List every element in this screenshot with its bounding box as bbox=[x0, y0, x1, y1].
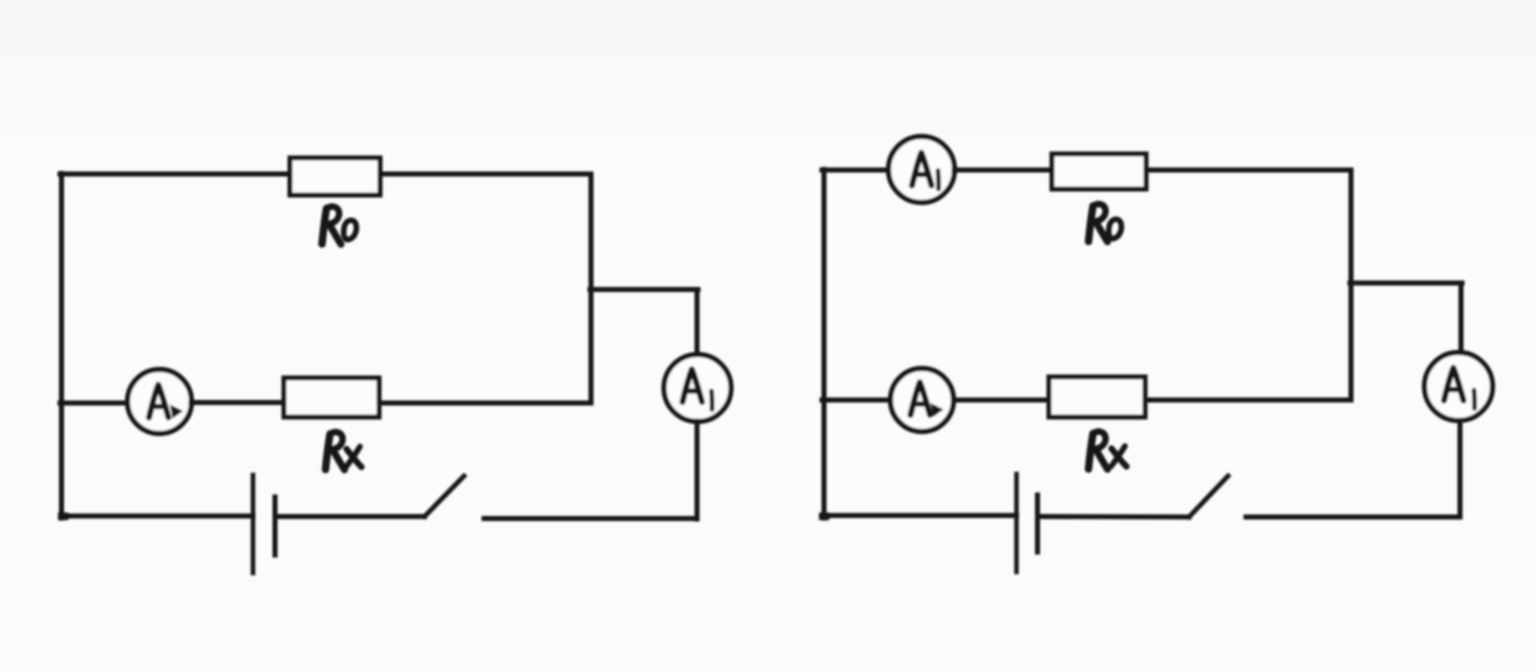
battery plate short (b) bbox=[1035, 495, 1040, 552]
wire: bottom left (b) bbox=[824, 513, 1017, 518]
resistor R0 (b) bbox=[1052, 154, 1146, 189]
wire: middle branch right (b) bbox=[1145, 398, 1351, 403]
label Rx (b) bbox=[1089, 432, 1127, 470]
wire: top mid (b) bbox=[954, 168, 1052, 173]
resistor R0 (a) bbox=[290, 158, 380, 195]
wire: A1 top stub (b) bbox=[1459, 283, 1464, 352]
wire: top right (b) bbox=[1146, 168, 1351, 173]
wire: middle branch left (a) bbox=[60, 401, 128, 406]
wire: middle branch left (b) bbox=[822, 398, 891, 403]
wire: jog toward A1 (a) bbox=[590, 287, 698, 292]
switch S blade (a) bbox=[425, 476, 465, 517]
wire: middle branch right (a) bbox=[379, 401, 591, 406]
wire: A1 bottom stub (a) bbox=[695, 421, 700, 519]
wire: bottom right (b) bbox=[1246, 515, 1460, 520]
wire: bottom left (a) bbox=[62, 514, 254, 519]
label Rx (a) bbox=[326, 432, 362, 470]
wire: bottom right (a) bbox=[484, 516, 697, 521]
wire: right vertical upper (a) bbox=[589, 174, 594, 403]
switch S blade (b) bbox=[1189, 476, 1228, 517]
ammeter A1 right (b) bbox=[1425, 353, 1493, 421]
label R0 (a) bbox=[322, 207, 356, 245]
resistor Rx (a) bbox=[284, 378, 379, 417]
ammeter A2 (b) bbox=[891, 369, 954, 432]
wire: pivot to battery (a) bbox=[278, 514, 425, 519]
wire: left vertical (b) bbox=[819, 170, 830, 519]
wire: middle branch mid (b) bbox=[954, 398, 1050, 403]
ammeter A2 (a) bbox=[128, 370, 192, 434]
ammeter A1 top (b) bbox=[889, 137, 955, 203]
resistor Rx (b) bbox=[1049, 377, 1145, 417]
wire: top left to ammeter (b) bbox=[822, 168, 889, 173]
wire: right vertical upper (b) bbox=[1349, 170, 1354, 400]
wire: A1 bottom stub (b) bbox=[1458, 421, 1463, 518]
wire: jog toward A1 (b) bbox=[1350, 281, 1462, 286]
battery plate long (a) bbox=[251, 475, 256, 573]
wire: middle branch mid (a) bbox=[191, 400, 284, 405]
battery plate long (b) bbox=[1014, 474, 1019, 572]
battery plate short (a) bbox=[273, 497, 278, 555]
wire: pivot to battery (b) bbox=[1040, 514, 1189, 520]
label R0 (b) bbox=[1089, 204, 1122, 242]
wire: left vertical (a) bbox=[58, 174, 69, 519]
wire: A1 top stub (a) bbox=[695, 290, 700, 356]
ammeter A1 (a) bbox=[664, 355, 731, 422]
wire: top (a) bbox=[60, 172, 591, 177]
